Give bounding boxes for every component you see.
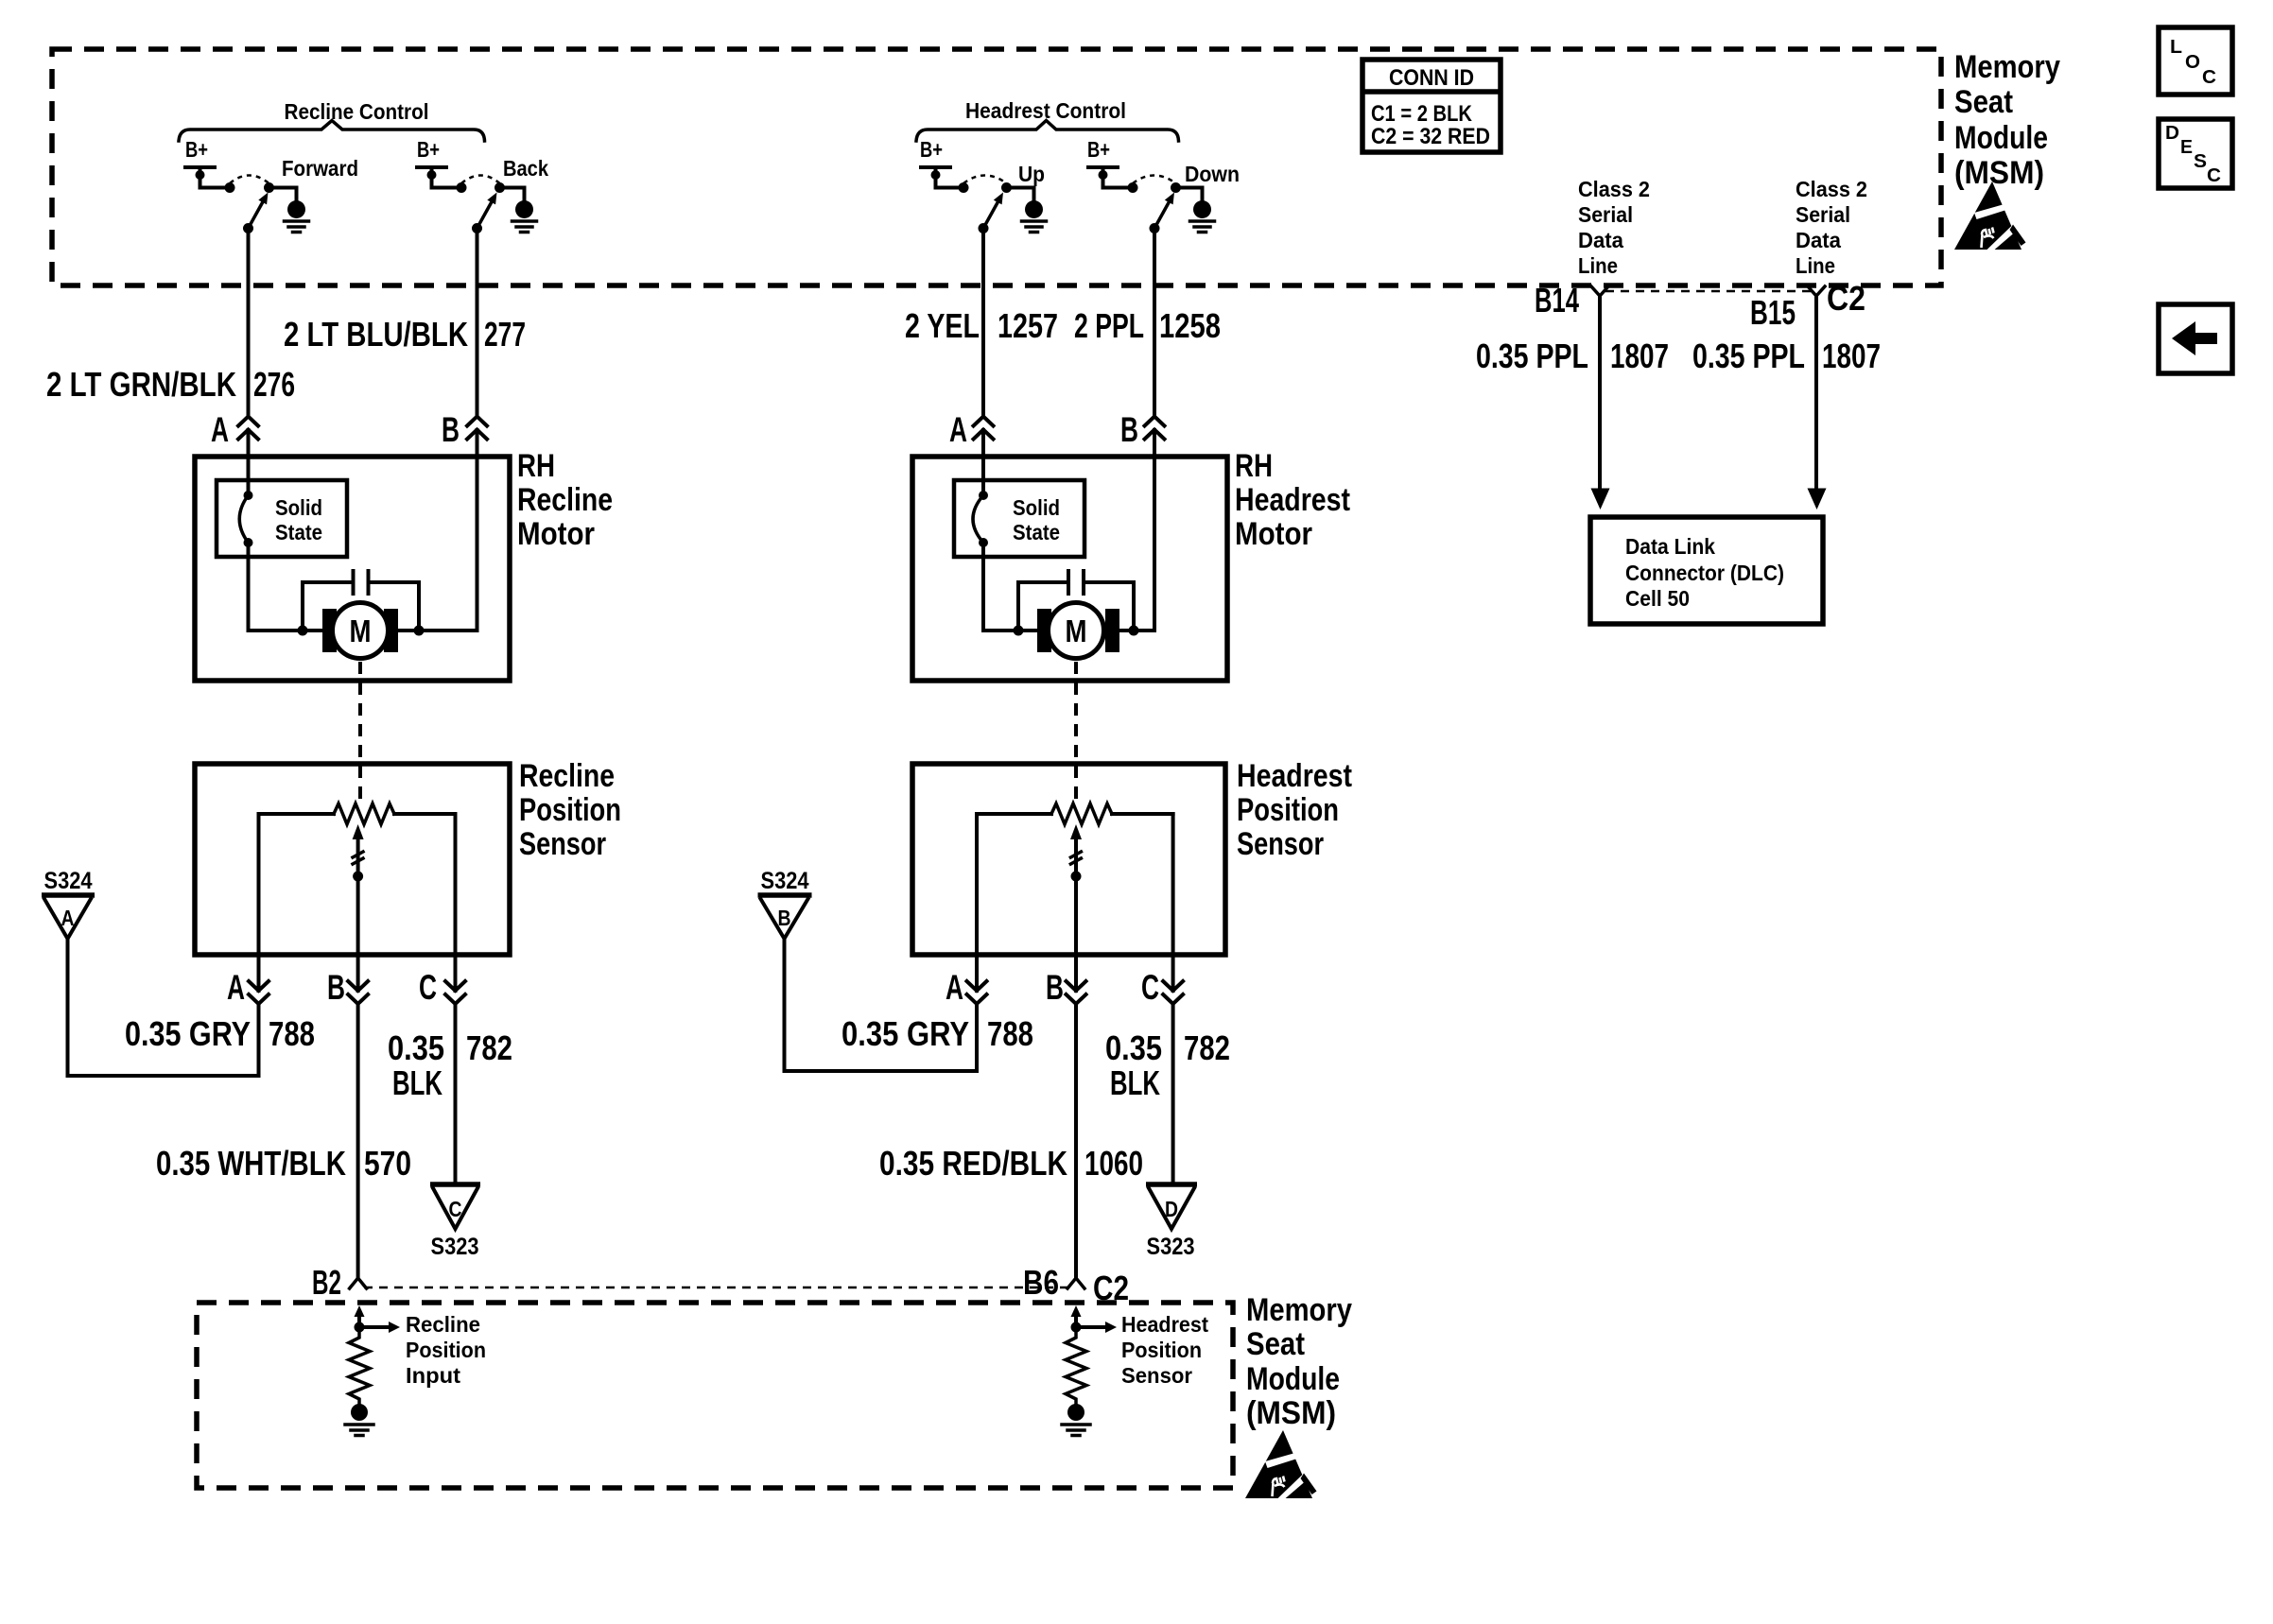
potentiometer resistor (headrest) bbox=[977, 812, 1051, 816]
wire pot end C (recline) bbox=[454, 814, 458, 955]
ground (recline input) bbox=[351, 1404, 368, 1421]
headrest position sensor arrow up bbox=[1074, 1316, 1078, 1327]
svg-text:788: 788 bbox=[269, 1014, 315, 1053]
svg-text:782: 782 bbox=[1184, 1028, 1230, 1067]
Memory Seat Module (MSM) bottom dashed box bbox=[197, 1303, 1233, 1488]
svg-text:Input: Input bbox=[406, 1363, 460, 1388]
wire sensor pin B (headrest) bbox=[1074, 955, 1078, 1278]
svg-text:S324: S324 bbox=[761, 868, 809, 894]
wire sensor pin A (recline) bbox=[257, 955, 261, 1076]
svg-text:0.35 RED/BLK: 0.35 RED/BLK bbox=[879, 1144, 1067, 1183]
dashed mechanical shaft (headrest) bbox=[1074, 662, 1078, 806]
movable contact arm (Down) bbox=[1150, 223, 1160, 233]
svg-text:Seat: Seat bbox=[1954, 84, 2013, 120]
svg-text:Recline Control: Recline Control bbox=[285, 99, 429, 124]
svg-text:0.35: 0.35 bbox=[388, 1028, 444, 1067]
RH Recline Motor box bbox=[195, 457, 510, 681]
wire S324-B to headrest sensor pin A bbox=[785, 939, 978, 1071]
svg-text:Sensor: Sensor bbox=[1121, 1363, 1192, 1388]
wire pot end A (recline) bbox=[257, 814, 261, 955]
svg-text:1807: 1807 bbox=[1610, 337, 1669, 375]
node motor left (recline) bbox=[298, 626, 308, 636]
svg-text:O: O bbox=[2185, 52, 2200, 73]
svg-text:(MSM): (MSM) bbox=[1954, 155, 2044, 191]
wire sensor pin C (recline) bbox=[454, 955, 458, 1184]
svg-text:Memory: Memory bbox=[1246, 1292, 1352, 1328]
svg-text:Back: Back bbox=[503, 156, 548, 181]
svg-text:Line: Line bbox=[1796, 253, 1835, 278]
svg-text:0.35 WHT/BLK: 0.35 WHT/BLK bbox=[156, 1144, 346, 1183]
wire pot end C (headrest) bbox=[1171, 814, 1175, 955]
node motor right (headrest) bbox=[1129, 626, 1139, 636]
wire 277 from Back switch down bbox=[476, 229, 479, 458]
svg-text:Cell 50: Cell 50 bbox=[1625, 586, 1690, 611]
svg-text:BLK: BLK bbox=[1110, 1063, 1160, 1102]
recline position input arrow up bbox=[357, 1316, 361, 1327]
svg-text:0.35 GRY: 0.35 GRY bbox=[125, 1014, 251, 1053]
node Down output pin bbox=[1171, 182, 1181, 193]
ground (Forward switch) bbox=[287, 200, 305, 218]
dashed travel arc (Forward) bbox=[230, 176, 269, 184]
svg-text:Down: Down bbox=[1185, 162, 1240, 186]
solid state switch contacts (headrest) bbox=[979, 491, 988, 500]
node Up output pin bbox=[1001, 182, 1012, 193]
svg-text:Data: Data bbox=[1578, 228, 1623, 252]
svg-text:A: A bbox=[949, 410, 967, 449]
svg-text:B: B bbox=[1046, 968, 1064, 1007]
svg-text:Sensor: Sensor bbox=[1237, 826, 1324, 862]
wire 1257 from Up switch down bbox=[981, 229, 985, 458]
svg-text:A: A bbox=[61, 906, 75, 930]
svg-text:277: 277 bbox=[484, 315, 526, 354]
svg-text:Position: Position bbox=[1237, 792, 1339, 828]
wire S324-A to sensor pin A bbox=[68, 939, 259, 1076]
svg-text:Recline: Recline bbox=[519, 758, 615, 794]
svg-text:Forward: Forward bbox=[282, 156, 358, 181]
Memory Seat Module (MSM) top dashed box bbox=[52, 49, 1941, 285]
svg-text:C1 = 2 BLK: C1 = 2 BLK bbox=[1371, 101, 1473, 127]
dashed travel arc (Up) bbox=[963, 176, 1007, 184]
svg-text:2 YEL: 2 YEL bbox=[905, 306, 980, 345]
thin dashed link B2 to B6 bbox=[364, 1287, 1069, 1289]
svg-text:1807: 1807 bbox=[1822, 337, 1881, 375]
wire 276 from Forward switch down bbox=[247, 229, 251, 458]
svg-text:B2: B2 bbox=[312, 1263, 341, 1302]
wire pin to ground (Down) bbox=[1176, 188, 1203, 201]
node recline input bbox=[355, 1322, 365, 1333]
svg-text:Data Link: Data Link bbox=[1625, 534, 1715, 559]
wire sensor pin C (headrest) bbox=[1171, 955, 1175, 1184]
svg-text:Module: Module bbox=[1954, 120, 2048, 156]
solid state switch contacts (recline) bbox=[244, 491, 253, 500]
svg-text:788: 788 bbox=[987, 1014, 1033, 1053]
node Forward output pin bbox=[264, 182, 274, 193]
svg-text:B: B bbox=[327, 968, 345, 1007]
svg-text:State: State bbox=[1013, 520, 1060, 544]
resistor recline position input bbox=[349, 1327, 370, 1404]
svg-text:Connector (DLC): Connector (DLC) bbox=[1625, 561, 1784, 585]
Data Link Connector (DLC) box bbox=[1590, 517, 1823, 624]
splice S323 triangle C bbox=[430, 1182, 480, 1187]
svg-text:CONN ID: CONN ID bbox=[1389, 65, 1474, 91]
svg-text:Class 2: Class 2 bbox=[1578, 177, 1650, 201]
brace Recline Control bbox=[179, 121, 485, 142]
potentiometer resistor (recline) bbox=[259, 812, 335, 816]
svg-text:Class 2: Class 2 bbox=[1796, 177, 1867, 201]
svg-text:Sensor: Sensor bbox=[519, 826, 606, 862]
svg-text:C: C bbox=[449, 1197, 462, 1221]
svg-text:Serial: Serial bbox=[1796, 202, 1850, 227]
svg-text:A: A bbox=[946, 968, 963, 1007]
ground (Back switch) bbox=[515, 200, 533, 218]
svg-text:Headrest: Headrest bbox=[1237, 758, 1352, 794]
svg-text:M: M bbox=[350, 613, 372, 648]
svg-text:RH: RH bbox=[517, 448, 555, 484]
svg-text:(MSM): (MSM) bbox=[1246, 1395, 1336, 1431]
svg-text:M: M bbox=[1066, 613, 1087, 648]
svg-text:C2: C2 bbox=[1827, 279, 1865, 318]
svg-text:Position: Position bbox=[1121, 1338, 1202, 1362]
dashed travel arc (Back) bbox=[461, 176, 500, 184]
wire pin to ground (Forward) bbox=[269, 188, 297, 201]
thin dashed link B14 to B15 bbox=[1605, 290, 1811, 293]
svg-text:S: S bbox=[2194, 151, 2207, 172]
movable contact arm (Up) bbox=[979, 223, 989, 233]
svg-text:D: D bbox=[1165, 1197, 1178, 1221]
wire pin to ground (Up) bbox=[1007, 188, 1034, 201]
wire pot end A (headrest) bbox=[975, 814, 979, 955]
svg-text:E: E bbox=[2180, 137, 2193, 158]
svg-text:B15: B15 bbox=[1750, 293, 1796, 332]
headrest position sensor arrow right bbox=[1076, 1325, 1105, 1329]
svg-text:1257: 1257 bbox=[998, 306, 1058, 345]
svg-text:B+: B+ bbox=[185, 137, 208, 162]
wire A into solid state (headrest) bbox=[981, 457, 985, 495]
svg-text:C: C bbox=[419, 968, 437, 1007]
svg-text:0.35 PPL: 0.35 PPL bbox=[1476, 337, 1588, 375]
back-arrow legend box bbox=[2159, 304, 2232, 373]
svg-text:Seat: Seat bbox=[1246, 1326, 1305, 1362]
svg-text:RH: RH bbox=[1235, 448, 1273, 484]
svg-text:S323: S323 bbox=[431, 1234, 479, 1260]
svg-text:B: B bbox=[1120, 410, 1138, 449]
CONN ID table bbox=[1362, 60, 1501, 152]
svg-text:Up: Up bbox=[1018, 162, 1045, 186]
ground (headrest input) bbox=[1067, 1404, 1084, 1421]
svg-text:A: A bbox=[211, 410, 229, 449]
svg-text:L: L bbox=[2170, 37, 2182, 58]
movable contact arm (Forward) bbox=[243, 223, 253, 233]
svg-text:276: 276 bbox=[253, 365, 295, 404]
solid state box (recline) bbox=[217, 480, 347, 557]
svg-text:A: A bbox=[227, 968, 245, 1007]
wire B into motor (headrest) bbox=[1114, 457, 1154, 631]
Headrest Position Sensor box bbox=[912, 764, 1225, 955]
ESD symbol (bottom MSM) bbox=[1245, 1430, 1317, 1499]
svg-text:B+: B+ bbox=[920, 137, 943, 162]
svg-text:Line: Line bbox=[1578, 253, 1618, 278]
potentiometer wiper (headrest) bbox=[1074, 836, 1078, 955]
wire B+ to fixed contact (Back) bbox=[432, 175, 462, 188]
wire pin to ground (Back) bbox=[500, 188, 525, 201]
movable contact arm (Back) bbox=[472, 223, 482, 233]
svg-text:Recline: Recline bbox=[406, 1312, 480, 1337]
svg-text:1060: 1060 bbox=[1084, 1144, 1143, 1183]
svg-text:B: B bbox=[778, 906, 791, 930]
svg-text:2 LT BLU/BLK: 2 LT BLU/BLK bbox=[284, 315, 468, 354]
svg-text:Headrest: Headrest bbox=[1121, 1312, 1208, 1337]
switch S-Down B+ terminal bbox=[1088, 167, 1118, 172]
svg-text:B6: B6 bbox=[1023, 1263, 1059, 1302]
dashed mechanical shaft (recline) bbox=[358, 662, 362, 806]
svg-text:S324: S324 bbox=[44, 868, 93, 894]
svg-text:B: B bbox=[442, 410, 460, 449]
ground (Up switch) bbox=[1025, 200, 1043, 218]
svg-text:Position: Position bbox=[519, 792, 621, 828]
svg-text:570: 570 bbox=[364, 1144, 411, 1183]
svg-text:0.35 PPL: 0.35 PPL bbox=[1692, 337, 1805, 375]
LOC legend box bbox=[2159, 27, 2232, 95]
potentiometer wiper (recline) bbox=[356, 836, 360, 955]
svg-text:Motor: Motor bbox=[1235, 516, 1312, 552]
wire B into motor (recline) bbox=[398, 457, 477, 631]
svg-text:C: C bbox=[2202, 67, 2216, 88]
ground (Down switch) bbox=[1193, 200, 1211, 218]
svg-text:C2 = 32 RED: C2 = 32 RED bbox=[1371, 124, 1490, 149]
svg-text:Data: Data bbox=[1796, 228, 1841, 252]
svg-text:Position: Position bbox=[406, 1338, 486, 1362]
motor M1 RH recline motor bbox=[322, 609, 337, 652]
svg-text:1258: 1258 bbox=[1159, 306, 1221, 345]
svg-text:2 PPL: 2 PPL bbox=[1074, 306, 1144, 345]
svg-text:C: C bbox=[2207, 165, 2221, 186]
Recline Position Sensor box bbox=[195, 764, 510, 955]
node Back output pin bbox=[495, 182, 505, 193]
switch S-Up B+ terminal bbox=[921, 167, 950, 172]
wire B+ to fixed contact (Down) bbox=[1103, 175, 1134, 188]
wire 1807 left to DLC bbox=[1598, 296, 1602, 492]
svg-text:Solid: Solid bbox=[1013, 495, 1060, 520]
svg-text:B+: B+ bbox=[1087, 137, 1110, 162]
switch S-Back B+ terminal bbox=[417, 167, 446, 172]
wire 1258 from Down switch down bbox=[1153, 229, 1156, 458]
splice S323 triangle D bbox=[1146, 1182, 1197, 1187]
svg-text:D: D bbox=[2165, 123, 2179, 144]
node motor left (headrest) bbox=[1014, 626, 1024, 636]
svg-text:782: 782 bbox=[466, 1028, 512, 1067]
svg-text:Solid: Solid bbox=[275, 495, 322, 520]
svg-text:C: C bbox=[1141, 968, 1159, 1007]
svg-text:Memory: Memory bbox=[1954, 49, 2060, 85]
DESC legend box bbox=[2159, 119, 2232, 188]
wire solid state to motor (headrest) bbox=[983, 543, 1038, 631]
node motor right (recline) bbox=[414, 626, 425, 636]
ESD symbol (top MSM) bbox=[1954, 181, 2026, 251]
svg-text:B14: B14 bbox=[1535, 281, 1579, 320]
splice S324 triangle B bbox=[758, 892, 812, 898]
wire 1807 right to DLC bbox=[1814, 296, 1818, 492]
wire solid state to motor (recline) bbox=[249, 543, 323, 631]
splice S324 triangle A bbox=[42, 892, 95, 898]
wire B+ to fixed contact (Up) bbox=[936, 175, 964, 188]
svg-text:Motor: Motor bbox=[517, 516, 595, 552]
svg-text:Serial: Serial bbox=[1578, 202, 1633, 227]
resistor headrest position sensor bbox=[1066, 1327, 1086, 1404]
wire A into solid state (recline) bbox=[247, 457, 251, 495]
switch S-Forward B+ terminal bbox=[185, 167, 215, 172]
svg-text:2 LT GRN/BLK: 2 LT GRN/BLK bbox=[46, 365, 236, 404]
node headrest input bbox=[1071, 1322, 1082, 1333]
motor M2 RH headrest motor bbox=[1037, 609, 1051, 652]
svg-text:BLK: BLK bbox=[392, 1063, 442, 1102]
solid state box (headrest) bbox=[954, 480, 1084, 557]
svg-text:0.35: 0.35 bbox=[1105, 1028, 1162, 1067]
brace Headrest Control bbox=[916, 121, 1179, 142]
wire sensor pin B (recline) bbox=[356, 955, 360, 1278]
wire B+ to fixed contact (Forward) bbox=[200, 175, 231, 188]
svg-text:S323: S323 bbox=[1147, 1234, 1195, 1260]
svg-text:Headrest: Headrest bbox=[1235, 482, 1350, 518]
capacitor across motor (headrest) bbox=[1018, 582, 1134, 631]
svg-text:0.35 GRY: 0.35 GRY bbox=[842, 1014, 969, 1053]
dashed travel arc (Down) bbox=[1133, 176, 1176, 184]
recline position input arrow right bbox=[359, 1325, 389, 1329]
svg-text:Recline: Recline bbox=[517, 482, 613, 518]
capacitor across motor (recline) bbox=[303, 582, 419, 631]
svg-text:State: State bbox=[275, 520, 322, 544]
wire sensor pin A (headrest) bbox=[975, 955, 979, 1071]
RH Headrest Motor box bbox=[912, 457, 1227, 681]
svg-text:B+: B+ bbox=[417, 137, 440, 162]
svg-text:Module: Module bbox=[1246, 1361, 1340, 1397]
